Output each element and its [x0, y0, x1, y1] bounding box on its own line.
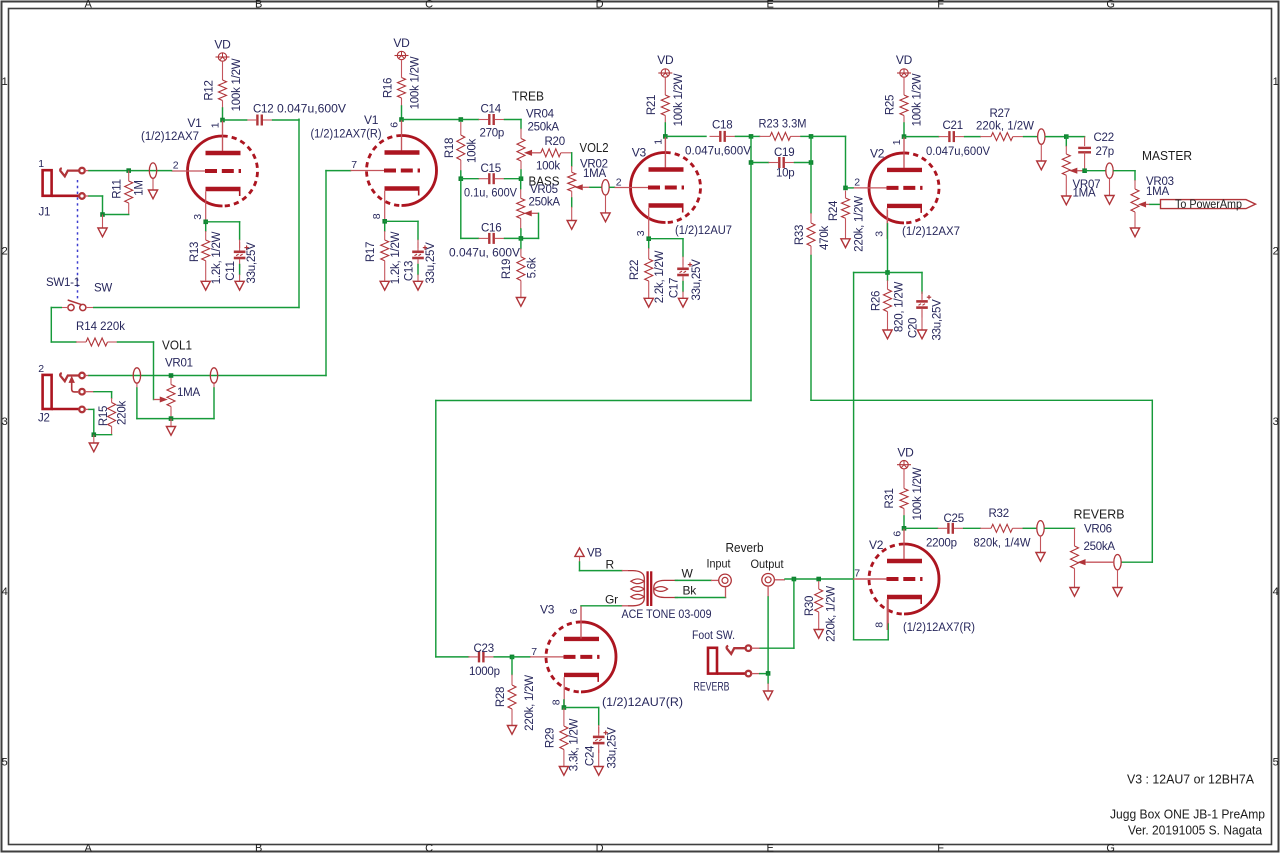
svg-text:R13: R13	[189, 242, 201, 262]
svg-text:1: 1	[210, 122, 222, 128]
label 0.047u,600V (C12)	[277, 104, 346, 116]
label C20	[908, 318, 920, 338]
ground (R13)	[201, 281, 210, 290]
wire ground stem (J1)	[102, 215, 104, 229]
svg-text:C12: C12	[253, 104, 273, 116]
svg-text:0.047u, 600V: 0.047u, 600V	[449, 248, 520, 260]
wire R19 top	[520, 238, 522, 248]
svg-text:G: G	[1106, 843, 1114, 853]
resistor R12	[219, 80, 227, 101]
resistor R19	[517, 249, 525, 298]
wire plate to transformer Gr	[581, 605, 622, 607]
svg-text:B: B	[255, 843, 262, 853]
label R32	[989, 508, 1009, 520]
label C23	[474, 643, 494, 655]
wire C22 top link	[1066, 137, 1084, 147]
svg-text:REVERB: REVERB	[694, 682, 730, 694]
ground (R28)	[507, 726, 516, 735]
wire J2 sleeve lead	[85, 408, 89, 410]
wire V2 plate lead	[903, 137, 905, 170]
wire VOL1 signal rail	[89, 375, 326, 377]
wire V3 plate to C18	[665, 135, 706, 137]
label VD (R21)	[657, 53, 674, 67]
ground (R22)	[644, 298, 653, 307]
svg-text:0.047u,600V: 0.047u,600V	[685, 146, 751, 158]
node J1 ground junction	[100, 212, 105, 217]
power symbol VD (R25 supply)	[897, 69, 911, 77]
svg-text:R31: R31	[884, 488, 896, 508]
pin number 8 (V3b)	[551, 699, 563, 705]
label 100k (R18)	[467, 139, 479, 163]
wire C24 bottom	[598, 750, 600, 767]
svg-text:R23 3.3M: R23 3.3M	[759, 119, 807, 131]
wire R21 top lead	[664, 78, 666, 95]
svg-text:220k, 1/2W: 220k, 1/2W	[976, 121, 1034, 133]
wire J2 tip lead	[85, 375, 89, 377]
ground (reverb out ellipse)	[1113, 588, 1122, 597]
svg-text:3: 3	[192, 214, 204, 220]
svg-text:2: 2	[173, 160, 179, 172]
svg-text:C19: C19	[774, 147, 794, 159]
wire R33 drop	[810, 136, 812, 213]
node V1 plate junction	[220, 118, 225, 123]
svg-text:8: 8	[551, 699, 563, 705]
label (1/2)12AX7(R)	[311, 129, 382, 141]
svg-text:R19: R19	[501, 259, 513, 279]
svg-text:R20: R20	[545, 136, 565, 148]
pin number 3 (V2)	[874, 231, 886, 237]
VR01 wiper arrow	[154, 397, 167, 402]
ground (J2/R15)	[89, 443, 98, 452]
svg-text:C23: C23	[474, 643, 494, 655]
svg-text:1: 1	[653, 139, 665, 145]
note V3 tube options	[1127, 772, 1254, 787]
svg-text:ACE TONE 03-009: ACE TONE 03-009	[622, 609, 712, 621]
svg-text:2: 2	[1273, 246, 1279, 258]
svg-text:3: 3	[1273, 416, 1279, 428]
connector ellipse (master in)	[1038, 129, 1045, 144]
ground (R29)	[559, 767, 568, 776]
label 5.6k (R19)	[527, 257, 539, 278]
wire J2 middle run	[94, 392, 112, 398]
svg-text:250kA: 250kA	[1084, 541, 1116, 553]
connector ellipse (rail left)	[133, 368, 140, 383]
label R17	[365, 242, 377, 262]
svg-text:3: 3	[635, 230, 647, 236]
svg-text:C16: C16	[481, 223, 501, 235]
jack Foot SW (REVERB)	[708, 645, 751, 676]
power symbol VD (R31 supply)	[897, 461, 911, 469]
svg-text:R21: R21	[646, 95, 658, 115]
pin number 6 (V3b)	[568, 608, 580, 614]
wire C13 bottom	[417, 265, 419, 282]
svg-text:100k 1/2W: 100k 1/2W	[912, 467, 924, 520]
wire C15 left	[461, 178, 479, 180]
svg-text:R28: R28	[495, 687, 507, 707]
svg-text:G: G	[1106, 0, 1114, 11]
label (1/2)12AX7(R) (V2b)	[903, 622, 975, 634]
node C18 right junction	[749, 134, 754, 139]
wire master to VR03	[1114, 171, 1135, 180]
wire VR03 wiper out	[1150, 203, 1160, 205]
label 0.1u, 600V (C15)	[464, 188, 517, 200]
label R29	[545, 728, 557, 748]
potentiometer VR04	[517, 129, 525, 171]
label R16	[383, 78, 395, 98]
wire foot ground stem	[767, 674, 769, 691]
ground (J1/R11)	[98, 228, 107, 237]
node J2 ground junction	[92, 432, 97, 437]
label R24	[828, 200, 840, 221]
wire cathode to C11	[206, 222, 240, 240]
pin number 2 (V2)	[854, 177, 860, 189]
wire ellipse stem (VOL2)	[605, 195, 607, 213]
wire cathode to C17	[649, 239, 683, 257]
wire V2 plate to C21	[904, 136, 939, 138]
potentiometer VR06	[1071, 546, 1079, 588]
svg-text:220k, 1/2W: 220k, 1/2W	[826, 586, 838, 642]
svg-text:VD: VD	[897, 446, 914, 460]
resistor R25	[900, 95, 908, 116]
svg-text:R14 220k: R14 220k	[76, 321, 125, 333]
svg-text:220k, 1/2W: 220k, 1/2W	[854, 196, 866, 252]
svg-text:V3: V3	[540, 603, 555, 617]
label 100k 1/2W (R16)	[410, 56, 422, 109]
wire R23 to node	[801, 135, 811, 137]
label 220k, 1/2W (R24)	[854, 196, 866, 252]
resistor R14	[76, 338, 118, 346]
wire R32 to ellipse	[1023, 527, 1036, 529]
svg-text:VR06: VR06	[1084, 524, 1112, 536]
triode V3 (1/2)12AU7(R)	[530, 606, 616, 708]
wire C19 right	[795, 162, 812, 164]
svg-text:D: D	[596, 843, 604, 853]
svg-text:Foot SW.: Foot SW.	[692, 630, 735, 642]
wire C11 bottom	[239, 265, 241, 282]
wire C15 right	[505, 178, 522, 180]
svg-text:Output: Output	[751, 557, 785, 571]
label 1MA (VR07)	[1073, 188, 1096, 200]
wire V2b cathode lead	[887, 599, 889, 624]
label C18	[712, 120, 732, 132]
label C25	[944, 513, 964, 525]
svg-text:R33: R33	[794, 225, 806, 245]
wire C15 node down	[461, 179, 479, 239]
label 2.2k, 1/2W (R22)	[654, 250, 666, 303]
svg-text:2: 2	[616, 177, 622, 189]
svg-text:C20: C20	[908, 318, 920, 338]
wire rail up to V1b grid	[326, 171, 351, 376]
svg-text:1: 1	[2, 76, 8, 88]
svg-text:1MA: 1MA	[1073, 188, 1096, 200]
label R15	[98, 406, 110, 426]
wire reverb return bus	[811, 256, 1152, 563]
ground (VR06)	[1070, 588, 1079, 597]
wire J1 tip to V1 grid	[89, 170, 172, 172]
pin number 7 (V1b)	[351, 159, 357, 171]
svg-text:1MA: 1MA	[177, 387, 200, 399]
pin number 2 (V3)	[616, 177, 622, 189]
wire V1 pin1 plate lead	[222, 120, 224, 153]
switch linkage dashed line (SW1-1)	[77, 180, 79, 299]
label 33u,25V (C24)	[607, 727, 619, 769]
resistor R11	[125, 171, 133, 215]
capacitor C25	[938, 523, 964, 534]
potentiometer VR01	[167, 376, 175, 419]
svg-text:C17: C17	[669, 278, 681, 298]
label R26	[871, 291, 883, 311]
power symbol VD (R12 supply)	[216, 53, 230, 61]
svg-text:100k 1/2W: 100k 1/2W	[673, 73, 685, 126]
svg-text:5.6k: 5.6k	[527, 257, 539, 278]
label VR07	[1073, 179, 1101, 191]
capacitor C24	[593, 725, 608, 753]
resistor R17	[381, 231, 389, 281]
pin number 2 (V1)	[173, 160, 179, 172]
wire C20 top	[921, 273, 923, 294]
wire node to R23	[751, 135, 760, 137]
label R13	[189, 242, 201, 262]
label 250kA (VR05)	[529, 197, 561, 209]
wire VR02 wiper to ellipse	[590, 186, 601, 188]
wire switch left run	[51, 308, 76, 343]
svg-text:Bk: Bk	[683, 584, 698, 598]
wire VOL2 to V3 grid	[610, 186, 615, 188]
svg-text:(1/2)12AX7: (1/2)12AX7	[141, 131, 199, 143]
svg-text:1.2k, 1/2W: 1.2k, 1/2W	[390, 231, 402, 284]
svg-text:0.1u, 600V: 0.1u, 600V	[464, 188, 517, 200]
label R20	[545, 136, 565, 148]
power symbol VD (R21 supply)	[658, 69, 672, 77]
capacitor C21	[939, 131, 965, 142]
svg-text:8: 8	[371, 213, 383, 219]
svg-text:To PowerAmp: To PowerAmp	[1175, 199, 1242, 211]
wire switch to coupling	[94, 307, 299, 309]
ground (R17)	[380, 281, 389, 290]
svg-text:(1/2)12AU7(R): (1/2)12AU7(R)	[602, 697, 683, 709]
label 220k (R15)	[117, 401, 129, 425]
triode V2 (1/2)12AX7	[853, 137, 939, 239]
label Bk (transformer)	[683, 584, 698, 598]
svg-text:C18: C18	[712, 120, 732, 132]
node C15 left junction	[459, 176, 464, 181]
label C15	[481, 163, 501, 175]
wire V3 plate lead	[664, 136, 666, 169]
svg-text:3.3k, 1/2W: 3.3k, 1/2W	[569, 718, 581, 771]
svg-text:TREB: TREB	[512, 90, 544, 104]
node C19 left junction	[749, 160, 754, 165]
svg-text:270p: 270p	[480, 128, 505, 140]
svg-text:C25: C25	[944, 513, 964, 525]
label REVERB	[1074, 508, 1125, 522]
svg-text:1000p: 1000p	[469, 666, 500, 678]
label 100k (R20)	[536, 161, 560, 173]
node V2 grid junction	[843, 186, 848, 191]
resistor R32	[980, 524, 1023, 532]
label R (transformer)	[606, 558, 615, 572]
label VR05	[530, 184, 558, 196]
wire Output jack lead	[775, 579, 785, 581]
potentiometer VR05	[517, 179, 525, 229]
wire R27 to ellipse	[1024, 136, 1037, 138]
svg-text:6: 6	[389, 122, 401, 128]
svg-text:VR01: VR01	[165, 358, 193, 370]
label 1.2k, 1/2W (R17)	[390, 231, 402, 284]
RCA jack Reverb Output	[762, 574, 775, 587]
svg-text:MASTER: MASTER	[1142, 149, 1192, 163]
wire ellipse to node	[1046, 136, 1067, 138]
capacitor C15	[479, 173, 505, 184]
label 33u,25V (C11)	[246, 242, 258, 284]
ground (C20)	[917, 330, 926, 339]
node V3b cathode junction	[562, 705, 567, 710]
label 270p (C14)	[480, 128, 505, 140]
label 2200p (C25)	[926, 538, 957, 550]
wire stage1 coupling vertical	[298, 119, 300, 307]
svg-text:V2: V2	[870, 147, 885, 161]
label TREB	[512, 90, 544, 104]
label V1	[187, 116, 202, 130]
label 100k 1/2W (R25)	[912, 73, 924, 126]
svg-text:0.047u,600V: 0.047u,600V	[926, 146, 990, 158]
label BASS	[529, 175, 560, 189]
wire V2 grid feed	[811, 136, 846, 188]
svg-text:33u,25V: 33u,25V	[932, 299, 944, 341]
wire Output sleeve down	[767, 586, 769, 673]
svg-text:R18: R18	[444, 138, 456, 158]
potentiometer VR02	[568, 172, 576, 220]
svg-text:5: 5	[1273, 757, 1279, 769]
node V1 cathode junction	[203, 220, 208, 225]
node Output junction	[792, 577, 797, 582]
svg-text:820, 1/2W: 820, 1/2W	[894, 282, 906, 333]
svg-text:2: 2	[38, 363, 44, 375]
label C11	[225, 261, 237, 281]
triode V3 (1/2)12AU7	[615, 137, 701, 239]
label R21	[646, 95, 658, 115]
label C24	[585, 745, 597, 766]
label C22	[1094, 132, 1114, 144]
resistor R13	[202, 231, 210, 281]
svg-text:10p: 10p	[776, 168, 794, 180]
svg-text:R24: R24	[828, 200, 840, 221]
label R28	[495, 687, 507, 707]
pin number 8 (V1b)	[371, 213, 383, 219]
resistor R30	[815, 581, 823, 630]
svg-text:R16: R16	[383, 78, 395, 98]
node C19 right junction	[809, 160, 814, 165]
wire ellipse stem (master out)	[1109, 179, 1111, 196]
svg-text:2.2k, 1/2W: 2.2k, 1/2W	[654, 250, 666, 303]
label 100k 1/2W (R21)	[673, 73, 685, 126]
resistor R28	[508, 657, 516, 726]
ground (VR02)	[567, 221, 576, 230]
wire VB to transformer R	[580, 570, 622, 572]
wire W to Reverb Input	[675, 579, 718, 581]
ground (VR07)	[1062, 196, 1071, 205]
label (1/2)12AU7(R)	[602, 697, 683, 709]
wire foot tip lead	[752, 647, 760, 649]
svg-text:C11: C11	[225, 261, 237, 281]
label 470k (R33)	[819, 226, 831, 250]
svg-text:VD: VD	[214, 38, 231, 52]
svg-text:(1/2)12AX7(R): (1/2)12AX7(R)	[903, 622, 975, 634]
node R18 top junction	[459, 117, 464, 122]
wire V1b cathode ext	[384, 222, 386, 232]
svg-text:R25: R25	[885, 95, 897, 115]
wire VR01 bottom rail	[137, 418, 214, 420]
label V3	[632, 146, 647, 160]
svg-text:6: 6	[892, 531, 904, 537]
wire C19 left drop	[750, 136, 752, 162]
wire VB stem	[579, 556, 581, 570]
power symbol VB	[575, 548, 584, 556]
label VR02	[580, 159, 608, 171]
node VR04 bottom junction	[519, 176, 524, 181]
wire R31 top lead	[903, 469, 905, 488]
node C16 right junction	[519, 236, 524, 241]
wire shared cathode drop	[854, 273, 889, 640]
svg-text:100k 1/2W: 100k 1/2W	[231, 58, 243, 111]
svg-text:R29: R29	[545, 728, 557, 748]
ground (VR03)	[1130, 228, 1139, 237]
node R23 right junction	[809, 134, 814, 139]
svg-text:4: 4	[1273, 586, 1279, 598]
wire V1b plate to R18 node	[402, 119, 461, 121]
label C16	[481, 223, 501, 235]
label ACE TONE 03-009	[622, 609, 712, 621]
svg-text:33u,25V: 33u,25V	[691, 259, 703, 301]
svg-text:V1: V1	[187, 116, 202, 130]
label VR04	[526, 109, 555, 121]
label 220k, 1/2W (R30)	[826, 586, 838, 642]
svg-text:250kA: 250kA	[529, 197, 561, 209]
wire R25 top lead	[903, 78, 905, 95]
wire C19 left	[751, 162, 769, 164]
wire R16 bottom	[401, 98, 403, 120]
label 33u,25V (C20)	[932, 299, 944, 341]
wire V1 cathode lead ext	[205, 222, 207, 231]
svg-text:A: A	[84, 0, 92, 11]
label V2 (second half)	[869, 538, 884, 552]
label R23 3.3M	[759, 119, 807, 131]
pin number 1 (V3)	[653, 139, 665, 145]
title Ver. 20191005 S. Nagata	[1128, 823, 1263, 838]
resistor R16	[398, 78, 406, 99]
svg-text:VD: VD	[393, 36, 410, 50]
wire ellipse stem right	[213, 383, 215, 418]
label (1/2)12AX7 (V1)	[141, 131, 199, 143]
wire C16 right	[505, 237, 521, 239]
svg-text:SW1-1: SW1-1	[46, 277, 80, 289]
wire ellipse stem (reverb)	[1040, 536, 1042, 552]
ground (master ellipse)	[1037, 161, 1046, 170]
capacitor C22	[1078, 148, 1091, 171]
wire C20 bottom	[921, 310, 923, 330]
wire cathode rail right	[888, 272, 923, 274]
label REVERB (foot sw)	[694, 682, 730, 694]
triode V1 (1/2)12AX7	[172, 120, 258, 222]
wire V3b plate up	[580, 606, 582, 639]
label (1/2)12AX7 (V2)	[902, 226, 960, 238]
wire R21 bottom	[664, 116, 666, 137]
svg-text:R32: R32	[989, 508, 1009, 520]
node VR01 top junction	[169, 373, 174, 378]
wire V2 cathode down	[887, 210, 889, 273]
capacitor C18	[710, 131, 736, 142]
VR04 wiper arrow	[525, 150, 541, 155]
wire R12 bottom	[222, 101, 224, 121]
